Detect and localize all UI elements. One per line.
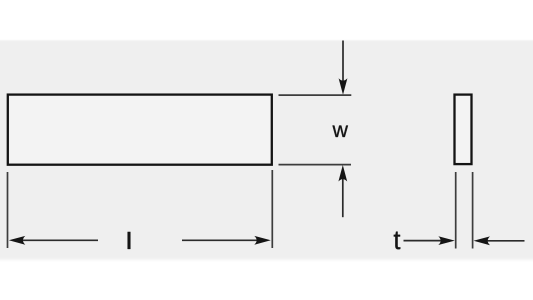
label t (394, 232, 401, 250)
front view: flat bar outline (l x w) (8, 95, 272, 165)
band top soft edge (0, 40, 533, 41)
w dimension arrow (top, pointing down) (342, 41, 344, 89)
label w (333, 126, 349, 138)
t left extension line (455, 172, 457, 249)
w top extension line (279, 94, 352, 96)
l right extension line (271, 170, 273, 248)
side view: bar thickness outline (t x w) (455, 95, 472, 165)
w dimension arrow (bottom, pointing up) (342, 172, 344, 217)
label l (128, 232, 131, 249)
w bottom extension line (279, 164, 352, 166)
t right extension line (472, 172, 474, 249)
t dimension line left segment with arrow pointing right (404, 240, 448, 242)
l left extension line (7, 172, 9, 248)
l dimension line right segment with arrow pointing right (182, 239, 264, 241)
l dimension line left segment with arrow pointing left (16, 239, 98, 241)
t dimension line right segment with arrow pointing left (481, 240, 525, 242)
band bottom soft fade (0, 0, 1, 1)
background gray band (0, 41, 533, 258)
